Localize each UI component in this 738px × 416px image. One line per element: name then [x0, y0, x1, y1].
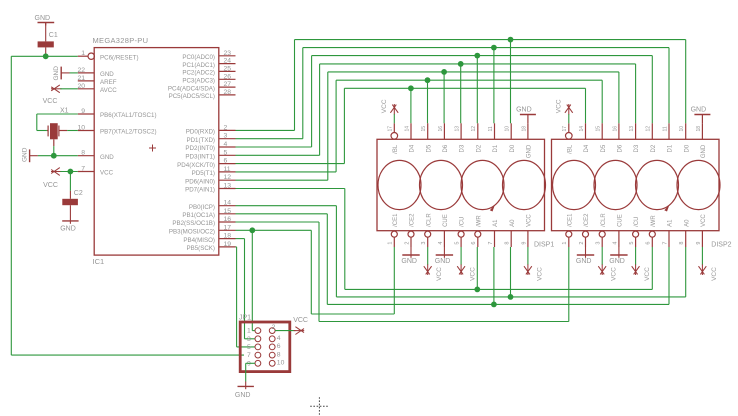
DISP1 top pin 11 D1 [488, 123, 499, 152]
svg-text:/WR: /WR [476, 215, 482, 227]
wire net PB0/A0 up to DISP2 pin8 [685, 247, 687, 297]
svg-text:CUE: CUE [443, 214, 449, 227]
svg-text:9: 9 [521, 242, 527, 245]
svg-text:2: 2 [272, 324, 276, 331]
wire net PB0/A0 bus [336, 296, 685, 298]
svg-text:D3: D3 [460, 144, 466, 152]
supply VCC below DISP2 pin 9 [699, 264, 718, 281]
svg-text:PD1(TXD): PD1(TXD) [186, 137, 215, 144]
svg-text:/CE1: /CE1 [567, 213, 573, 227]
DISP2 bottom pin 3 /CLR [596, 213, 607, 247]
svg-text:PB2(SS/OC1B): PB2(SS/OC1B) [172, 220, 215, 227]
svg-text:VCC: VCC [293, 317, 308, 324]
supply VCC above DISP1 /BL [381, 99, 398, 114]
svg-text:13: 13 [224, 183, 232, 190]
JP1 pin 1 [247, 328, 261, 335]
wire net PD0/D0 from IC1 [236, 40, 295, 131]
svg-text:PD3(INT1): PD3(INT1) [185, 154, 215, 161]
JP1 pin 7 [247, 352, 261, 359]
svg-text:1: 1 [388, 242, 394, 245]
svg-text:/CE2: /CE2 [584, 213, 590, 227]
svg-text:GND: GND [609, 258, 625, 265]
junction net PD3/D3 at DISP1 [458, 61, 464, 67]
svg-text:GND: GND [576, 258, 592, 265]
wire DISP1 pin 3 to VCC [427, 247, 429, 265]
wire RESET left [11, 55, 45, 57]
wire VCC to pin7 [60, 171, 78, 173]
svg-text:GND: GND [21, 147, 28, 162]
wire net PB1/A1 from IC1 [236, 214, 328, 305]
DISP2 bottom pin 8 A0 [679, 219, 690, 247]
DISP1 top pin 18 GND [521, 123, 532, 158]
wire DISP2 pin 5 to VCC [635, 247, 637, 265]
svg-text:AREF: AREF [100, 79, 117, 86]
wire net PD1/D1 bus [303, 47, 669, 49]
DISP2 top pin 14 D4 [579, 123, 590, 152]
svg-text:12: 12 [471, 126, 477, 132]
junction net PD0/D0 at DISP1 [508, 37, 514, 43]
svg-text:15: 15 [596, 126, 602, 132]
svg-text:12: 12 [646, 126, 652, 132]
svg-text:4: 4 [612, 242, 618, 245]
IC1 pin 17 PB3(MOSI/OC2) [169, 224, 236, 235]
wire net PD0/D0 bus [295, 39, 686, 41]
junction net PD5/D5 at DISP1 [425, 77, 431, 83]
DISP1 bottom pin 2 /CE2 [404, 213, 415, 247]
svg-text:VCC: VCC [43, 98, 58, 105]
IC1 pin 11 PD5(T1) [192, 166, 236, 177]
svg-text:11: 11 [224, 166, 231, 173]
DISP1 top pin 14 D4 [404, 123, 415, 152]
svg-text:GND: GND [435, 258, 451, 265]
wire net PD5/D5 drop to DISP2 [601, 80, 603, 123]
supply VCC at IC1 pin 20 [43, 85, 62, 105]
wire net PD1/D1 drop to DISP2 [668, 48, 670, 124]
wire PB5/SCK to JP1 pin5 [236, 247, 256, 347]
IC1 pin 10 PB7(XTAL2/TOSC2) [77, 125, 156, 136]
svg-text:11: 11 [488, 126, 494, 131]
svg-text:D4: D4 [584, 144, 590, 152]
JP1 pin 5 [247, 344, 261, 351]
IC1 pin 26 PC3(ADC3) [182, 73, 235, 84]
svg-text:PB5(SCK): PB5(SCK) [186, 245, 215, 252]
svg-text:9: 9 [696, 242, 702, 245]
svg-text:PD6(AIN0): PD6(AIN0) [185, 178, 215, 185]
wire net PD7//WR from IC1 [236, 189, 345, 290]
svg-text:8: 8 [679, 242, 685, 245]
svg-text:7: 7 [81, 166, 85, 173]
wire GND to pin8 [38, 155, 78, 157]
JP1 pin 3 [247, 336, 261, 343]
ground GND top-left [35, 15, 55, 25]
IC1 pin 1 PC6(/RESET) [78, 50, 139, 61]
IC1 pin 20 AVCC [77, 83, 117, 94]
svg-text:D2: D2 [476, 144, 482, 152]
ground above DISP1 [516, 107, 536, 124]
wire net PD5/D5 from IC1 [236, 80, 337, 172]
svg-text:D6: D6 [443, 144, 449, 152]
svg-text:14: 14 [404, 126, 410, 132]
JP1 pin 4 [269, 335, 280, 342]
wire VCC node to C2 [69, 172, 71, 191]
svg-text:GND: GND [701, 144, 707, 158]
wire net PD2/D2 from IC1 [236, 56, 312, 147]
junction net PD7 at DISP1 pin6 [474, 287, 480, 293]
svg-text:3: 3 [596, 242, 602, 245]
DISP2 bottom pin 6 /WR [646, 215, 657, 247]
wire net PB2//CE1-2 from IC1 [236, 222, 320, 322]
svg-text:22: 22 [77, 67, 85, 74]
DISP1 bottom pin 8 A0 [505, 219, 516, 247]
DISP2 bottom pin 2 /CE2 [579, 213, 590, 247]
DISP1 digit 3 [461, 160, 504, 209]
wire DISP1 pin8 A0 [510, 247, 512, 297]
svg-text:PC4(ADC4/SDA): PC4(ADC4/SDA) [168, 85, 215, 92]
svg-text:D4: D4 [410, 144, 416, 152]
wire net PD1/D1 from IC1 [236, 48, 303, 139]
display DISP2 DL2416 body [552, 139, 732, 248]
wire RESET to JP1 pin 7 [11, 354, 244, 356]
svg-text:18: 18 [521, 126, 527, 132]
svg-text:VCC: VCC [436, 267, 443, 281]
wire net PD2/D2 drop to DISP1 [476, 56, 478, 124]
supply VCC below DISP1 pin 3 [424, 264, 443, 281]
DISP2 top pin 18 GND [696, 123, 707, 158]
svg-text:6: 6 [471, 242, 477, 245]
wire net PD5/D5 bus [336, 79, 602, 81]
wire pin9 to X1 [37, 114, 78, 131]
svg-text:JP1: JP1 [239, 314, 251, 321]
IC1 pin 28 PC5(ADC5/SCL) [169, 89, 236, 100]
svg-text:7: 7 [662, 242, 668, 245]
svg-text:GND: GND [401, 258, 417, 265]
DISP2 digit 1 [553, 160, 596, 209]
svg-text:17: 17 [388, 126, 394, 132]
wire JP1 pin9 to GND [246, 363, 255, 381]
DISP1 bottom pin 5 /CU [455, 217, 466, 247]
svg-text:PB4(MISO): PB4(MISO) [183, 237, 215, 244]
supply VCC below DISP2 pin 3 [598, 264, 617, 281]
svg-text:PD2(INT0): PD2(INT0) [185, 145, 215, 152]
wire net PB1/A1 bus [327, 303, 669, 305]
IC1 pin 5 PD3(INT1) [185, 149, 235, 160]
JP1 pin 8 [269, 351, 280, 358]
DISP1 top pin 16 D6 [438, 123, 449, 152]
svg-text:5: 5 [224, 149, 228, 156]
svg-text:A1: A1 [668, 219, 674, 227]
wire net PD5/D5 drop to DISP1 [427, 80, 429, 123]
svg-text:3: 3 [421, 242, 427, 245]
IC1 pin 25 PC2(ADC2) [182, 65, 235, 76]
svg-text:14: 14 [579, 126, 585, 132]
DISP2 bottom pin 4 CUE [612, 214, 623, 247]
svg-text:6: 6 [646, 242, 652, 245]
junction net PD4/D4 at DISP1 [408, 85, 414, 91]
DISP2 top pin 17 /BL [562, 123, 573, 154]
wire net PD7//WR up to DISP2 pin6 [651, 247, 653, 289]
junction GND node at X1 [51, 153, 57, 159]
svg-text:C2: C2 [74, 190, 83, 197]
svg-text:D5: D5 [601, 144, 607, 152]
svg-text:28: 28 [224, 89, 232, 96]
DISP2 origin mark [664, 204, 669, 211]
DISP1 top pin 13 D3 [455, 123, 466, 152]
wire net PD4/D4 drop to DISP2 [585, 88, 587, 123]
svg-text:2: 2 [579, 242, 585, 245]
svg-text:2: 2 [404, 242, 410, 245]
svg-text:8: 8 [277, 351, 281, 358]
svg-text:GND: GND [100, 154, 114, 161]
wire RESET to IC pin 1 [46, 55, 78, 57]
wire DISP1 pin 9 to VCC [527, 247, 529, 265]
IC1 pin 22 GND [77, 67, 114, 78]
wire net PD3/D3 bus [320, 63, 636, 65]
DISP2 digit 4 [677, 160, 720, 209]
ground below DISP1 pin 4 [435, 247, 453, 265]
IC1 pin 3 PD1(TXD) [186, 133, 235, 144]
svg-text:GND: GND [53, 66, 60, 81]
sheet origin cross [310, 397, 329, 416]
svg-text:18: 18 [696, 126, 702, 132]
svg-text:VCC: VCC [536, 267, 543, 281]
svg-text:9: 9 [81, 108, 85, 115]
svg-text:PC3(ADC3): PC3(ADC3) [182, 78, 215, 85]
wire net PD2/D2 bus [312, 55, 653, 57]
wire net PB3 horizontal [311, 313, 394, 315]
svg-text:1: 1 [247, 328, 251, 335]
wire net PD3/D3 drop to DISP2 [635, 64, 637, 123]
DISP1 bottom pin 7 A1 [488, 219, 499, 247]
svg-text:PC1(ADC1): PC1(ADC1) [182, 62, 215, 69]
svg-text:/WR: /WR [651, 215, 657, 227]
IC1 pin 16 PB2(SS/OC1B) [172, 216, 235, 227]
svg-text:7: 7 [488, 242, 494, 245]
svg-text:23: 23 [224, 50, 232, 57]
svg-text:/CE1: /CE1 [393, 213, 399, 227]
wire net PD0/D0 drop to DISP2 [685, 40, 687, 124]
junction net PB3/MOSI [249, 227, 255, 233]
svg-text:D5: D5 [426, 144, 432, 152]
wire net PD0/D0 drop to DISP1 [510, 40, 512, 124]
DISP2 digit 3 [636, 160, 679, 209]
wire net PD6/D6 drop to DISP1 [443, 72, 445, 123]
IC1 pin 18 PB4(MISO) [183, 233, 235, 244]
svg-text:PC2(ADC2): PC2(ADC2) [182, 70, 215, 77]
JP1 pin 9 [247, 360, 261, 367]
svg-text:8: 8 [81, 150, 85, 157]
wire DISP1 pin7 A1 [493, 247, 495, 304]
IC1 pin 6 PD4(XCK/T0) [177, 158, 235, 169]
DISP2 bottom pin 9 VCC [696, 214, 707, 247]
svg-text:C1: C1 [49, 32, 58, 39]
svg-text:10: 10 [679, 126, 685, 132]
DISP2 bottom pin 7 A1 [662, 219, 673, 247]
svg-text:A1: A1 [493, 219, 499, 227]
svg-text:15: 15 [421, 126, 427, 132]
svg-text:A0: A0 [684, 219, 690, 227]
svg-text:/CU: /CU [634, 217, 640, 227]
svg-text:GND: GND [35, 15, 51, 22]
supply VCC at JP1 pin 2 [293, 317, 308, 335]
svg-text:10: 10 [505, 126, 511, 132]
DISP2 top pin 12 D2 [646, 123, 657, 152]
svg-text:21: 21 [77, 75, 85, 82]
wire net PD6/D6 from IC1 [236, 72, 328, 180]
svg-text:VCC: VCC [100, 170, 114, 177]
wire net PD4/D4 drop to DISP1 [410, 88, 412, 123]
svg-text:X1: X1 [60, 108, 69, 115]
IC1 pin 9 PB6(XTAL1/TOSC1) [78, 108, 157, 119]
svg-text:4: 4 [277, 335, 281, 342]
ground below DISP2 pin 4 [609, 247, 627, 265]
svg-text:GND: GND [235, 392, 251, 399]
ground above DISP2 [691, 107, 711, 124]
svg-text:VCC: VCC [611, 267, 618, 281]
svg-text:VCC: VCC [711, 267, 718, 281]
ground below JP1 [235, 382, 254, 399]
svg-text:10: 10 [277, 360, 285, 367]
svg-text:16: 16 [438, 126, 444, 132]
svg-text:PC0(ADC0): PC0(ADC0) [182, 54, 215, 61]
svg-text:VCC: VCC [644, 267, 651, 281]
supply VCC below DISP2 pin 5 [632, 264, 651, 281]
svg-text:PB7(XTAL2/TOSC2): PB7(XTAL2/TOSC2) [100, 129, 157, 136]
svg-text:GND: GND [691, 107, 707, 114]
ground at IC1 pin 22 [53, 66, 70, 81]
svg-text:2: 2 [224, 124, 228, 131]
svg-text:/CE2: /CE2 [410, 213, 416, 227]
svg-text:VCC: VCC [555, 99, 562, 113]
wire X1 to GND node [53, 146, 55, 156]
junction VCC node [68, 169, 74, 175]
wire net PD4/D4 from IC1 [236, 88, 345, 163]
svg-text:4: 4 [224, 141, 228, 148]
IC1 pin 14 PB0(ICP) [189, 200, 236, 211]
svg-text:GND: GND [527, 144, 533, 158]
DISP2 top pin 15 D5 [596, 123, 607, 152]
IC1 pin 15 PB1(OC1A) [182, 208, 235, 219]
wire DISP1 pin6 /WR [476, 247, 478, 289]
DISP1 origin mark [490, 204, 495, 211]
svg-text:CUE: CUE [618, 214, 624, 227]
DISP1 digit 2 [420, 160, 463, 209]
svg-text:D1: D1 [668, 144, 674, 152]
svg-text:PB6(XTAL1/TOSC1): PB6(XTAL1/TOSC1) [100, 112, 157, 119]
svg-text:6: 6 [224, 158, 228, 165]
svg-text:10: 10 [77, 125, 85, 132]
wire net PB2 up to DISP2 pin1 [568, 247, 570, 322]
DISP2 bottom pin 1 /CE1 [562, 213, 573, 247]
svg-text:11: 11 [662, 126, 668, 131]
display DISP1 DL2416 body [377, 139, 554, 248]
junction net PD1/D1 at DISP1 [491, 45, 497, 51]
svg-text:PC6(/RESET): PC6(/RESET) [100, 54, 139, 61]
IC1 pin 27 PC4(ADC4/SDA) [168, 81, 236, 92]
svg-text:24: 24 [224, 58, 232, 65]
wire net PD6/D6 drop to DISP2 [618, 72, 620, 123]
svg-text:GND: GND [60, 226, 76, 233]
DISP1 bottom pin 3 /CLR [421, 213, 432, 247]
svg-text:D0: D0 [684, 144, 690, 152]
svg-text:VCC: VCC [43, 182, 58, 189]
svg-text:20: 20 [77, 83, 85, 90]
wire DISP1 pin 5 to VCC [460, 247, 462, 265]
DISP1 top pin 12 D2 [471, 123, 482, 152]
DISP2 top pin 10 D0 [679, 123, 690, 152]
wire RESET down left side [10, 56, 12, 355]
IC1 pin 12 PD6(AIN0) [185, 174, 235, 185]
svg-text:PC5(ADC5/SCL): PC5(ADC5/SCL) [169, 93, 215, 100]
wire net PD7//WR bus [345, 288, 653, 290]
wire JP1 pin2 to VCC [275, 330, 295, 332]
wire pin20 to VCC [60, 88, 78, 90]
wire net PD2/D2 drop to DISP2 [651, 56, 653, 124]
svg-text:D3: D3 [634, 144, 640, 152]
junction net PB0 at DISP1 pin8 [508, 294, 514, 300]
wire net PD6/D6 bus [328, 71, 619, 73]
DISP2 top pin 16 D6 [612, 123, 623, 152]
svg-text:/CLR: /CLR [601, 213, 607, 227]
IC1 pin 13 PD7(AIN1) [185, 183, 235, 194]
svg-text:D0: D0 [510, 144, 516, 152]
svg-text:8: 8 [505, 242, 511, 245]
svg-text:7: 7 [247, 352, 251, 359]
svg-text:5: 5 [247, 344, 251, 351]
wire net PD1/D1 drop to DISP1 [493, 48, 495, 124]
svg-text:VCC: VCC [470, 267, 477, 281]
IC1 pin 4 PD2(INT0) [185, 141, 235, 152]
wire net PD3/D3 from IC1 [236, 64, 320, 155]
IC U1 MEGA328P-PU body [93, 36, 219, 266]
capacitor C2 [62, 190, 83, 221]
supply VCC below DISP1 pin 5 [457, 264, 476, 281]
supply VCC at IC1 pin 7 [43, 168, 62, 189]
svg-text:PB3(MOSI/OC2): PB3(MOSI/OC2) [169, 229, 215, 236]
wire DISP2 pin 9 to VCC [701, 247, 703, 265]
IC1 pin 2 PD0(RXD) [186, 124, 236, 135]
svg-text:A0: A0 [510, 219, 516, 227]
ground below C2 [60, 221, 78, 233]
svg-text:6: 6 [277, 343, 281, 350]
ground below DISP2 pin 2 [576, 247, 594, 265]
DISP1 digit 4 [503, 160, 546, 209]
svg-text:DISP1: DISP1 [534, 241, 554, 248]
JP1 pin 10 [269, 360, 284, 367]
svg-text:18: 18 [224, 233, 232, 240]
svg-text:PD7(AIN1): PD7(AIN1) [185, 187, 215, 194]
DISP2 digit 2 [594, 160, 637, 209]
svg-text:1: 1 [81, 50, 85, 57]
ground below DISP1 pin 2 [401, 247, 419, 265]
DISP1 bottom pin 1 /CE1 [388, 213, 399, 247]
svg-text:/CU: /CU [460, 217, 466, 227]
svg-text:4: 4 [438, 242, 444, 245]
IC1 pin 21 AREF [77, 75, 116, 86]
wire net PB3 up to DISP1 pin1 [393, 247, 395, 314]
svg-text:GND: GND [516, 107, 532, 114]
wire net PB1/A1 up to DISP2 pin7 [668, 247, 670, 304]
supply VCC below DISP1 pin 9 [524, 264, 543, 281]
svg-text:GND: GND [100, 71, 114, 78]
svg-text:/BL: /BL [393, 144, 399, 154]
svg-text:D2: D2 [651, 144, 657, 152]
wire MOSI to JP1 pin1 [252, 230, 255, 330]
svg-text:17: 17 [224, 224, 232, 231]
JP1 pin 6 [269, 343, 280, 350]
svg-text:/CLR: /CLR [426, 213, 432, 227]
svg-text:17: 17 [562, 126, 568, 132]
svg-text:PD0(RXD): PD0(RXD) [186, 129, 215, 136]
